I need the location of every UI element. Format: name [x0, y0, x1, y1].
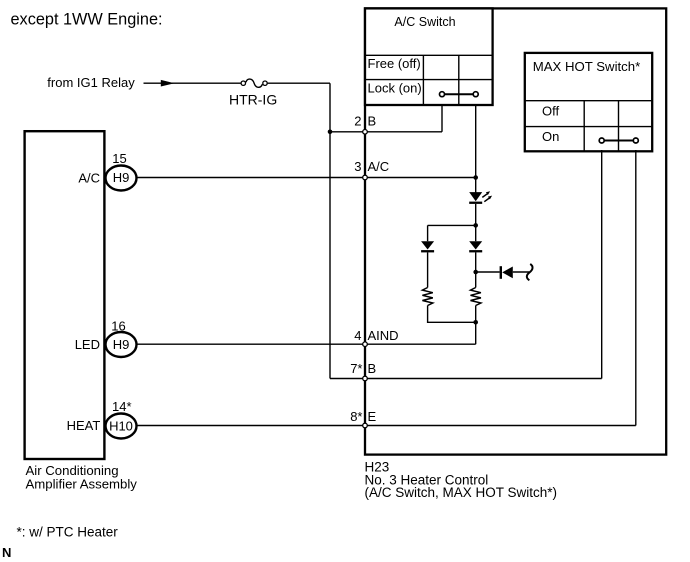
wire right branch to diode D4: [476, 271, 500, 273]
svg-text:(A/C Switch, MAX HOT Switch*): (A/C Switch, MAX HOT Switch*): [365, 485, 558, 500]
svg-text:On: On: [542, 129, 559, 144]
junction right diode node: [473, 270, 478, 275]
resistor R2: [471, 288, 481, 306]
svg-text:8*: 8*: [350, 409, 362, 424]
arrowhead: [161, 80, 175, 87]
connector LED H9 pin 16: [75, 319, 137, 358]
svg-text:except 1WW Engine:: except 1WW Engine:: [11, 11, 163, 29]
svg-text:Off: Off: [542, 103, 559, 118]
LED D1: [469, 191, 492, 204]
wire D4 to break: [513, 271, 529, 273]
switch contacts A/C (Lock on): [440, 92, 479, 97]
wire LED to lower node: [475, 204, 477, 241]
wire A/C pin to pin3 and LED chain: [137, 177, 476, 179]
wire left branch drop: [427, 225, 429, 241]
A/C Switch box: [365, 8, 493, 105]
svg-text:4: 4: [354, 328, 361, 343]
svg-text:Free (off): Free (off): [368, 56, 421, 71]
Air Conditioning Amplifier Assembly box: [25, 131, 105, 459]
diode D4 (horizontal): [500, 266, 513, 279]
pin 2 B: [354, 113, 376, 134]
svg-text:A/C Switch: A/C Switch: [394, 15, 455, 29]
junction below LED: [473, 223, 478, 228]
resistor R1: [422, 288, 432, 306]
connector HEAT H10 pin 14*: [67, 399, 137, 439]
svg-text:B: B: [368, 361, 377, 376]
svg-text:H10: H10: [109, 418, 133, 433]
svg-text:H9: H9: [113, 170, 130, 185]
wire LED H9 to pin4 AIND: [137, 343, 476, 345]
pin 4 AIND: [354, 328, 398, 347]
svg-text:3: 3: [354, 159, 361, 174]
pin 8* E: [350, 409, 376, 428]
wire MAX HOT right contact drop: [635, 150, 637, 426]
wire 7*B from bus to MAX HOT left contact: [330, 378, 602, 380]
svg-text:Amplifier Assembly: Amplifier Assembly: [26, 476, 138, 491]
wire fuse to corner: [268, 82, 330, 84]
pin 3 A/C: [354, 159, 389, 180]
svg-text:7*: 7*: [350, 361, 362, 376]
svg-text:14*: 14*: [112, 399, 132, 414]
wire 8*E to MAX HOT right contact: [365, 425, 636, 427]
switch contacts MAX HOT (On): [599, 138, 638, 143]
junction A/C node: [473, 175, 478, 180]
pin 7* B: [350, 361, 376, 381]
svg-text:LED: LED: [75, 337, 100, 352]
diode D2 (left): [421, 241, 434, 252]
wire switch left contact drop: [441, 104, 443, 132]
connector A/C H9 pin 15: [78, 151, 136, 191]
svg-text:H9: H9: [113, 337, 130, 352]
wire left branch horizontal: [428, 224, 476, 226]
junction resistor join: [473, 320, 478, 325]
svg-text:HTR-IG: HTR-IG: [229, 91, 277, 107]
MAX HOT Switch box: [525, 53, 652, 151]
wire break squiggle: [527, 264, 533, 280]
svg-text:2: 2: [354, 113, 361, 128]
svg-text:A/C: A/C: [368, 159, 390, 174]
svg-text:MAX HOT Switch*: MAX HOT Switch*: [533, 59, 640, 74]
svg-text:Lock (on): Lock (on): [368, 80, 422, 95]
wire R2 bottom to AIND: [475, 306, 477, 345]
wire switch right contact down to A/C node: [475, 104, 477, 193]
svg-text:15: 15: [112, 151, 126, 166]
wire R1 bottom to join: [428, 306, 476, 323]
diode D3 (right): [469, 241, 482, 252]
svg-text:*: w/ PTC Heater: *: w/ PTC Heater: [17, 525, 119, 540]
wire vertical feed bus: [329, 83, 331, 378]
wire HEAT H10 to pin8: [137, 425, 365, 427]
wire feed from IG1 relay to fuse: [144, 82, 241, 84]
svg-text:N: N: [2, 545, 11, 560]
H23 heater control box: [365, 8, 666, 454]
wire MAX HOT left contact drop: [601, 150, 603, 379]
fuse HTR-IG: [229, 79, 277, 107]
svg-text:A/C: A/C: [78, 171, 100, 186]
svg-text:AIND: AIND: [368, 328, 399, 343]
wire D2 to resistor R1: [427, 252, 429, 287]
junction feed/pin2: [328, 130, 333, 135]
svg-text:from IG1 Relay: from IG1 Relay: [47, 75, 135, 90]
svg-text:HEAT: HEAT: [67, 418, 101, 433]
wire stub to pin 2 and into switch left contact: [330, 131, 442, 133]
wire D3 to resistor R2: [475, 252, 477, 287]
svg-text:B: B: [368, 113, 377, 128]
svg-text:E: E: [368, 409, 377, 424]
